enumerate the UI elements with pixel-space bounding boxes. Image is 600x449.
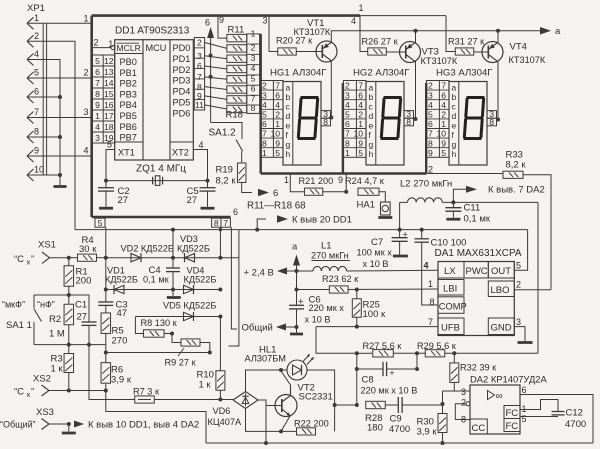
DD1 MCLR cell: [115, 53, 143, 55]
HG1 pin table: [260, 81, 283, 158]
junction VT4 emitter: [496, 29, 500, 33]
svg-text:4: 4: [262, 100, 267, 110]
flag K vyv 20 DD1: [255, 228, 259, 232]
svg-text:27: 27: [187, 195, 198, 206]
svg-text:7: 7: [197, 72, 202, 82]
svg-text:a: a: [286, 82, 291, 92]
svg-text:“С: “С: [14, 387, 24, 398]
svg-text:3,9 к: 3,9 к: [417, 427, 438, 438]
svg-text:5: 5: [98, 218, 103, 228]
svg-text:h: h: [452, 149, 457, 159]
svg-text:UFB: UFB: [441, 323, 460, 334]
svg-text:НА1: НА1: [357, 200, 375, 211]
wire XP1 pin10: [27, 174, 60, 176]
svg-text:12: 12: [104, 56, 114, 66]
wire C6 node to R23: [297, 289, 330, 291]
wire bus to MCLR: [92, 47, 111, 49]
display HG1 body: [283, 82, 321, 166]
svg-text:a: a: [452, 82, 457, 92]
wire rail drop x239: [229, 230, 239, 346]
junction VT2 collector on HL1 rail: [279, 368, 283, 372]
svg-text:2: 2: [251, 43, 256, 53]
svg-text:PD4: PD4: [173, 87, 191, 97]
display HG3 body: [449, 82, 487, 166]
rail corner to DA1 OUT: [514, 230, 527, 271]
svg-text:PWC: PWC: [466, 266, 488, 277]
svg-text:VD3: VD3: [180, 234, 198, 244]
svg-text:2: 2: [441, 110, 446, 120]
svg-text:R20 27 к: R20 27 к: [276, 36, 313, 46]
svg-text:3: 3: [95, 133, 100, 143]
svg-text:h: h: [286, 149, 291, 159]
svg-text:8: 8: [34, 127, 39, 137]
svg-text:FC: FC: [506, 408, 519, 419]
svg-text:2: 2: [94, 37, 99, 47]
DD1 right pin table PD pins: [194, 38, 204, 111]
svg-text:Общий: Общий: [242, 323, 273, 334]
svg-text:LBO: LBO: [491, 285, 510, 296]
junction HG1 common: [329, 116, 333, 120]
svg-text:1: 1: [428, 279, 433, 289]
resistor R12: [227, 45, 247, 52]
svg-text:7: 7: [262, 129, 267, 139]
resistor R17: [227, 96, 247, 103]
svg-text:3,9 к: 3,9 к: [111, 375, 132, 386]
svg-text:d: d: [452, 111, 457, 121]
svg-text:R31 27 к: R31 27 к: [448, 37, 485, 47]
svg-text:VD2 КД522Б: VD2 КД522Б: [121, 244, 174, 254]
XP1 pin 6: [27, 91, 34, 97]
svg-text:7: 7: [34, 107, 39, 117]
svg-text:6: 6: [428, 119, 433, 129]
wire UFB down to R27 row: [316, 327, 357, 354]
svg-text:7: 7: [358, 81, 363, 91]
svg-text:DA2 КР1407УД2А: DA2 КР1407УД2А: [470, 374, 548, 385]
HG2 digit 8: [381, 98, 400, 139]
svg-text:3: 3: [251, 53, 256, 63]
wire C8 node down to R28 row: [356, 369, 358, 405]
svg-text:7: 7: [441, 81, 446, 91]
bus bottom edge: [92, 216, 231, 219]
svg-text:2: 2: [34, 31, 39, 41]
DA1 UFB cell: [438, 318, 464, 335]
svg-text:PB1: PB1: [120, 68, 137, 78]
svg-text:“Общий”: “Общий”: [0, 420, 36, 430]
svg-text:5: 5: [441, 148, 446, 158]
flag net 6: [258, 189, 269, 197]
svg-text:7: 7: [251, 94, 256, 104]
SA1.1 bottom wire: [34, 344, 106, 346]
svg-text:270 мкГн: 270 мкГн: [311, 251, 349, 261]
svg-text:1: 1: [441, 119, 446, 129]
svg-text:b: b: [369, 92, 374, 102]
svg-text:3: 3: [345, 90, 350, 100]
svg-text:C11: C11: [464, 203, 481, 214]
flag a arrow: [540, 27, 551, 35]
svg-text:PB5: PB5: [120, 111, 137, 121]
resistor R9: [181, 339, 200, 346]
svg-text:GND: GND: [491, 323, 512, 334]
segment bus spine HG3: [425, 83, 427, 174]
wire XP1 pin9 to bus: [27, 155, 92, 157]
svg-text:3: 3: [197, 51, 202, 61]
bus line 1 top edge: [92, 14, 360, 17]
svg-text:8: 8: [489, 117, 494, 127]
svg-text:9: 9: [441, 138, 446, 148]
svg-text:К выв 20 DD1: К выв 20 DD1: [292, 215, 352, 226]
svg-text:”: ”: [31, 387, 34, 398]
DA1 GND cell: [488, 318, 514, 335]
svg-text:“мкФ”: “мкФ”: [2, 300, 25, 310]
svg-text:4: 4: [351, 16, 356, 26]
HG2 common pins 3/8: [404, 111, 414, 119]
display HG2 body: [366, 82, 404, 166]
svg-text:C8: C8: [362, 375, 374, 386]
svg-text:2: 2: [516, 280, 521, 290]
svg-text:5: 5: [95, 56, 100, 66]
flag to DA2 pin7: [453, 189, 466, 202]
svg-text:R22 200: R22 200: [294, 419, 329, 429]
svg-text:HG3 АЛ304Г: HG3 АЛ304Г: [436, 68, 493, 79]
svg-text:19: 19: [104, 133, 114, 143]
svg-text:PB6: PB6: [120, 122, 137, 132]
svg-text:1 к: 1 к: [199, 380, 212, 391]
svg-text:6: 6: [522, 385, 527, 395]
wire R24 to HA1: [379, 192, 385, 202]
svg-text:R26 27 к: R26 27 к: [362, 37, 399, 47]
svg-text:e: e: [286, 121, 291, 131]
svg-text:14: 14: [104, 78, 114, 88]
junction VT3 emitter: [414, 29, 418, 33]
junction on PD3 wire: [209, 75, 213, 79]
svg-text:4: 4: [34, 49, 39, 59]
svg-text:PD0: PD0: [173, 43, 191, 53]
flag K vyv 10 DD1: [74, 421, 84, 428]
wire L2 to C11 node: [442, 201, 538, 203]
svg-text:HG2 АЛ304Г: HG2 АЛ304Г: [353, 68, 410, 79]
resistor R29: [425, 350, 445, 357]
svg-text:DD1 AT90S2313: DD1 AT90S2313: [115, 26, 190, 37]
svg-text:4: 4: [251, 63, 256, 73]
svg-text:PD5: PD5: [173, 98, 191, 108]
+supply rail: [75, 229, 528, 231]
svg-text:1: 1: [83, 14, 88, 24]
wire VD2 row: [106, 257, 239, 259]
svg-text:5: 5: [522, 414, 527, 424]
svg-text:3: 3: [263, 16, 268, 26]
wire XP1 pin8: [27, 136, 60, 138]
svg-text:VD5 КД522Б: VD5 КД522Б: [163, 301, 216, 311]
HG3 pin table: [426, 81, 449, 158]
svg-text:10: 10: [34, 165, 44, 175]
svg-text:b: b: [452, 92, 457, 102]
svg-text:К выв 10 DD1, выв 4 DA2: К выв 10 DD1, выв 4 DA2: [88, 420, 199, 431]
svg-text:4: 4: [358, 100, 363, 110]
junction rail C10: [420, 228, 424, 232]
resistor R27: [373, 350, 394, 357]
DA2 opamp symbol: [488, 391, 495, 400]
XP1 pin 1: [27, 17, 34, 23]
resistor R11: [227, 34, 247, 41]
svg-text:220 мк х 10 В: 220 мк х 10 В: [361, 386, 418, 396]
wire node8 column: [219, 227, 221, 258]
svg-text:6: 6: [275, 90, 280, 100]
svg-text:OUT: OUT: [491, 266, 511, 277]
svg-text:C1: C1: [75, 300, 87, 311]
svg-text:C10 100: C10 100: [431, 238, 467, 249]
ground C5: [201, 207, 215, 210]
svg-text:5: 5: [358, 148, 363, 158]
svg-text:PB0: PB0: [120, 57, 137, 67]
svg-text:1: 1: [262, 148, 267, 158]
svg-text:9: 9: [358, 138, 363, 148]
DD1 XT1 cell: [115, 141, 143, 143]
junction rail C4 column: [171, 228, 175, 232]
XP1 pin 4: [27, 54, 34, 60]
DD1 left pin table: [92, 55, 115, 143]
wire L2 node down to R27 row: [537, 202, 539, 353]
svg-text:3: 3: [516, 317, 521, 327]
svg-text:7: 7: [428, 317, 433, 327]
svg-text:SA1 1: SA1 1: [6, 320, 32, 331]
svg-text:L2 270 мкГн: L2 270 мкГн: [400, 179, 452, 190]
XP1 pin 2: [27, 35, 34, 41]
svg-text:C7: C7: [371, 237, 383, 248]
svg-text:8: 8: [345, 138, 350, 148]
svg-text:R8 130 к: R8 130 к: [141, 318, 178, 328]
svg-text:9: 9: [275, 138, 280, 148]
svg-text:3: 3: [461, 387, 466, 397]
HG1 common pins 3/8: [321, 111, 331, 119]
XP1 pin 9: [27, 150, 34, 156]
svg-text:8: 8: [406, 117, 411, 127]
wire R28 row to VT2 node: [335, 404, 357, 406]
capacitor C2: [105, 181, 107, 188]
wire C10 to COMP: [422, 242, 438, 305]
svg-text:х: х: [27, 390, 31, 399]
svg-text:+ 2,4 В: + 2,4 В: [244, 268, 274, 279]
svg-text:2: 2: [461, 398, 466, 408]
svg-text:4: 4: [423, 261, 428, 271]
R11-R18 output pin boxes: [247, 34, 260, 114]
wire R29 right: [445, 352, 538, 354]
svg-text:C9: C9: [390, 414, 402, 425]
svg-text:6: 6: [345, 119, 350, 129]
wire XS2 node down: [106, 391, 206, 444]
svg-text:XS3: XS3: [36, 407, 54, 418]
HG3 digit 8: [464, 98, 483, 139]
svg-text:3: 3: [83, 107, 88, 117]
crystal ZQ1: [155, 176, 160, 186]
svg-text:6: 6: [95, 67, 100, 77]
svg-text:4700: 4700: [389, 424, 410, 435]
XP1 pin 5: [27, 72, 34, 78]
bus left edge: [90, 16, 93, 217]
svg-text:16: 16: [104, 100, 114, 110]
svg-text:2: 2: [275, 110, 280, 120]
wire +2.4 node down to C6: [296, 271, 298, 290]
svg-text:2: 2: [358, 110, 363, 120]
svg-text:47: 47: [117, 308, 128, 319]
capacitor C11: [452, 202, 454, 207]
svg-text:х 10 В: х 10 В: [363, 259, 389, 269]
segment bus under HG1: [261, 172, 343, 174]
svg-text:R24 4,7 к: R24 4,7 к: [345, 176, 385, 186]
svg-text:4: 4: [441, 100, 446, 110]
HG2 pin table: [343, 81, 366, 158]
svg-text:4: 4: [199, 140, 204, 150]
svg-text:8: 8: [461, 415, 466, 425]
svg-text:4: 4: [275, 100, 280, 110]
svg-text:8: 8: [323, 117, 328, 127]
net 1 drop to R31: [446, 16, 456, 52]
svg-text:а: а: [555, 26, 561, 37]
svg-text:CC: CC: [472, 423, 486, 434]
svg-text:9: 9: [219, 15, 224, 25]
chassis bar under C7: [393, 255, 408, 258]
wire to SA1.2: [211, 123, 242, 140]
resistor R15: [227, 76, 247, 83]
wire XS1 to R4: [50, 257, 69, 259]
svg-text:1: 1: [34, 13, 39, 23]
wire VD5 row: [135, 316, 220, 318]
svg-text:4700: 4700: [565, 419, 586, 430]
svg-text:9: 9: [338, 175, 343, 185]
svg-text:КТ3107К: КТ3107К: [509, 55, 546, 65]
HG3 common pins 3/8: [487, 111, 497, 119]
diode VD3: [185, 254, 195, 262]
wire XS3: [49, 423, 69, 425]
svg-text:5: 5: [262, 110, 267, 120]
inductor L1: [313, 266, 347, 271]
svg-text:2: 2: [262, 81, 267, 91]
svg-text:8: 8: [262, 138, 267, 148]
svg-text:PB7: PB7: [120, 133, 137, 143]
svg-text:6: 6: [197, 61, 202, 71]
svg-text:КТ3107К: КТ3107К: [294, 27, 331, 37]
DA1 LX cell: [438, 262, 464, 279]
svg-text:13: 13: [104, 67, 114, 77]
svg-text:VD6: VD6: [213, 406, 231, 416]
svg-text:2: 2: [428, 81, 433, 91]
diode VD2: [131, 254, 141, 262]
svg-text:XT1: XT1: [118, 148, 135, 158]
resistor R13: [227, 55, 247, 62]
svg-text:7: 7: [95, 78, 100, 88]
svg-text:К выв. 7 DA2: К выв. 7 DA2: [488, 185, 545, 196]
resistor R18: [227, 105, 247, 112]
svg-text:а: а: [292, 242, 298, 253]
svg-text:0,1 мк: 0,1 мк: [464, 214, 491, 225]
bus cell 5: [95, 218, 105, 227]
svg-text:6: 6: [233, 207, 238, 217]
junction rail L2/C7: [398, 228, 402, 232]
capacitor C4: [172, 230, 174, 268]
wire R23 to LBI: [348, 288, 438, 291]
resistor R16: [227, 86, 247, 93]
DD1 MCLR inversion circle: [111, 46, 115, 50]
svg-text:7: 7: [428, 129, 433, 139]
svg-text:9: 9: [428, 148, 433, 158]
svg-text:7: 7: [345, 129, 350, 139]
svg-text:LX: LX: [444, 266, 456, 277]
junction R4 right: [97, 257, 106, 259]
svg-text:х: х: [27, 258, 31, 267]
wire R7 to bridge: [154, 399, 233, 401]
svg-text:8: 8: [214, 218, 219, 228]
emitter rail to flag a: [331, 30, 541, 32]
wire R27 row: [357, 352, 372, 354]
wire VD column to R10: [219, 317, 221, 372]
bus cell 8: [212, 218, 221, 227]
svg-text:8,2 к: 8,2 к: [216, 176, 237, 187]
svg-text:КД522Б: КД522Б: [177, 244, 210, 254]
svg-text:220 мк х: 220 мк х: [309, 303, 345, 313]
svg-text:R9 27 к: R9 27 к: [165, 358, 197, 368]
chassis bar under C4: [172, 290, 174, 297]
svg-text:5: 5: [345, 110, 350, 120]
switch SA1.2 lever: [236, 140, 243, 152]
wire VD1 row: [106, 289, 221, 291]
wire L1 to DA1 LX: [347, 269, 438, 272]
wire R9 to node: [200, 343, 210, 353]
svg-text:1 М: 1 М: [49, 329, 65, 340]
wire XP1 pin1 to bus: [27, 22, 92, 24]
wire GND pin to ground: [514, 327, 525, 341]
wire R27 to R29: [394, 352, 427, 354]
svg-text:g: g: [369, 140, 374, 150]
svg-text:КД522Б: КД522Б: [105, 275, 138, 285]
svg-text:7: 7: [223, 218, 228, 228]
segment bus under HG2: [343, 172, 426, 174]
svg-text:5: 5: [34, 68, 39, 78]
svg-text:х 10 В: х 10 В: [305, 315, 331, 325]
svg-text:8: 8: [95, 89, 100, 99]
IC DA1 body: [438, 262, 514, 336]
svg-text:R32 39 к: R32 39 к: [460, 363, 497, 373]
DA1 LBO cell: [488, 281, 514, 297]
wire XS2 row: [49, 390, 106, 392]
DA1 OUT cell: [488, 262, 514, 279]
svg-text:15: 15: [104, 89, 114, 99]
svg-text:e: e: [452, 121, 457, 131]
svg-text:ZQ1 4 МГц: ZQ1 4 МГц: [136, 164, 186, 175]
ground for XP1 unused pins: [54, 185, 67, 188]
wire XP1 pin6: [27, 96, 60, 98]
svg-text:6: 6: [358, 90, 363, 100]
svg-text:R11—R18 68: R11—R18 68: [247, 201, 306, 212]
svg-text:C12: C12: [566, 408, 583, 419]
svg-text:1: 1: [95, 111, 100, 121]
svg-text:MCLR: MCLR: [117, 43, 141, 53]
ground XS3: [68, 424, 70, 432]
ground HA1: [378, 216, 392, 219]
DA2 FC cells: [504, 406, 520, 419]
svg-text:7: 7: [275, 81, 280, 91]
HG1 digit 8: [298, 98, 317, 139]
svg-text:30 к: 30 к: [79, 244, 97, 255]
svg-text:1: 1: [359, 3, 364, 13]
svg-text:КЦ407А: КЦ407А: [208, 417, 242, 427]
svg-text:4: 4: [95, 122, 100, 132]
wire LBO: [514, 289, 551, 291]
wire bridge right to VT2 base: [258, 400, 266, 443]
svg-text:FC: FC: [506, 421, 519, 432]
wire bridge top to HL1 rail: [246, 370, 288, 392]
svg-text:e: e: [369, 121, 374, 131]
svg-text:HG1 АЛ304Г: HG1 АЛ304Г: [270, 68, 327, 79]
inductor L2: [400, 201, 408, 203]
